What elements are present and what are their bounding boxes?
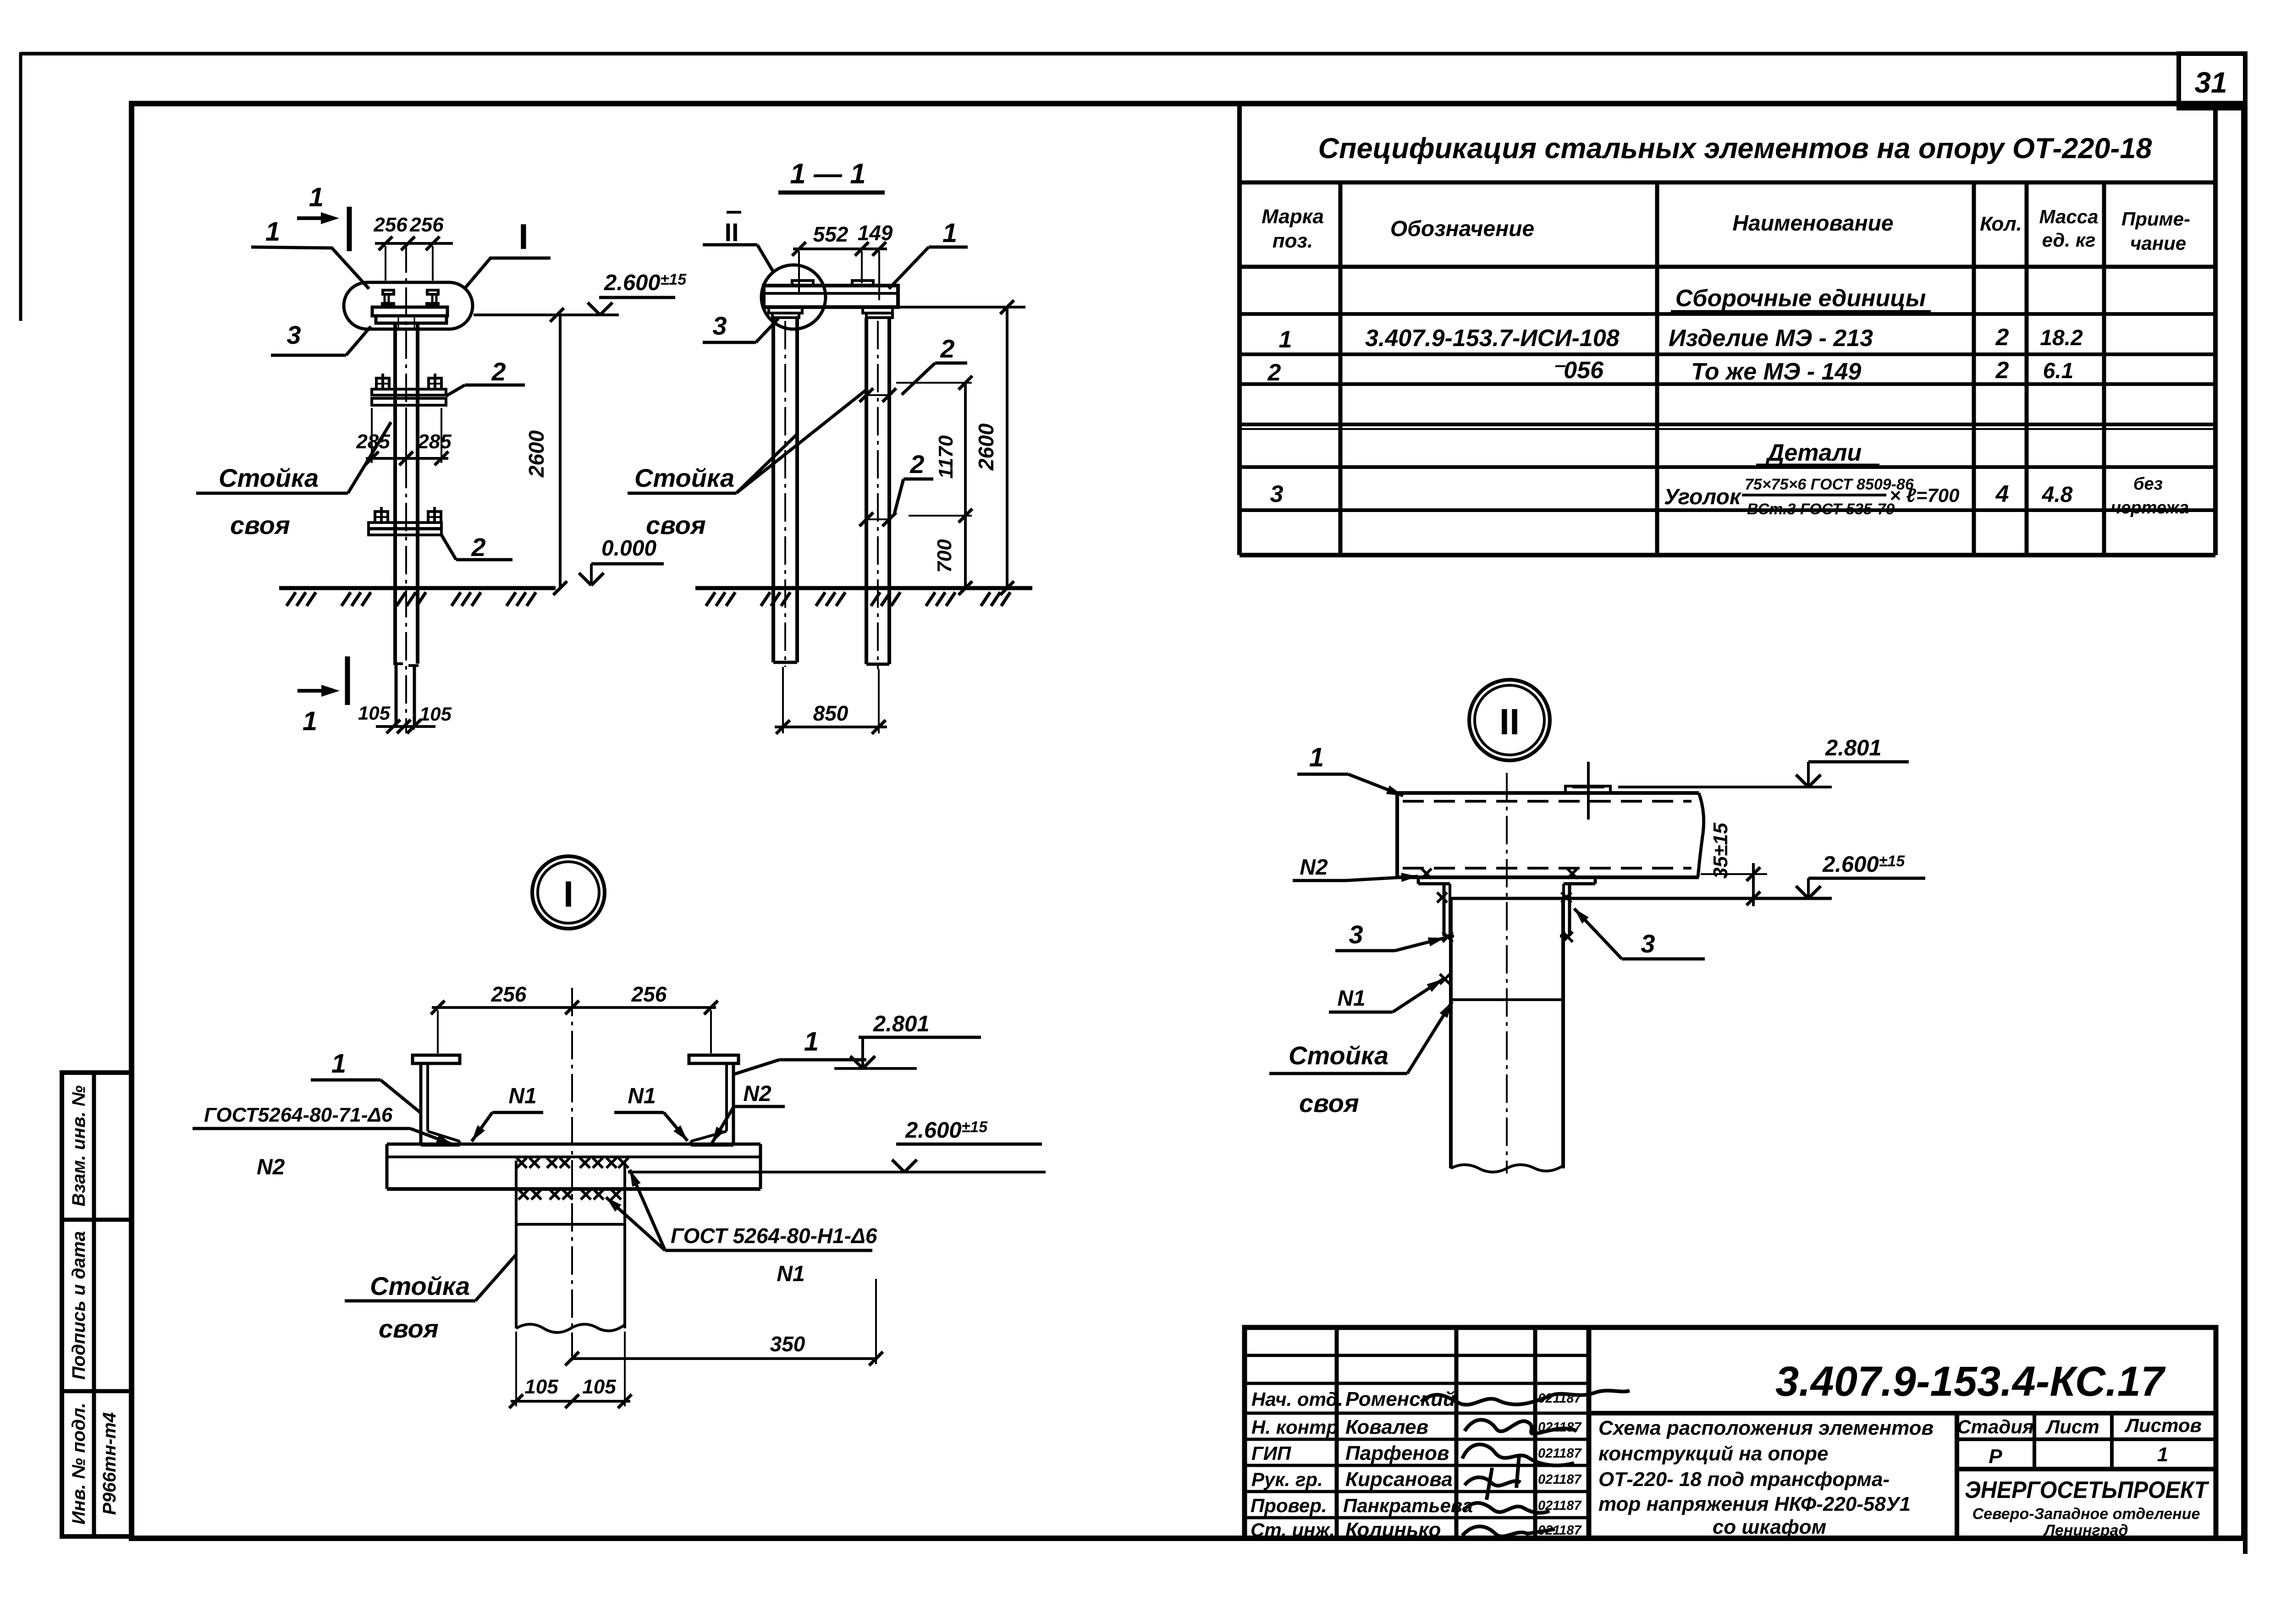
svg-text:1: 1: [1279, 326, 1292, 353]
svg-text:N2: N2: [1300, 855, 1328, 880]
svg-text:I: I: [563, 874, 573, 914]
svg-text:ГОСТ5264-80-71-Δ6: ГОСТ5264-80-71-Δ6: [204, 1104, 393, 1126]
svg-text:своя: своя: [1299, 1089, 1359, 1118]
svg-text:ЭНЕРГОСЕТЬПРОЕКТ: ЭНЕРГОСЕТЬПРОЕКТ: [1965, 1477, 2209, 1503]
svg-text:Панкратьева: Панкратьева: [1343, 1495, 1473, 1516]
svg-text:без: без: [2133, 474, 2163, 494]
svg-text:3.407.9-153.4-КС.17: 3.407.9-153.4-КС.17: [1775, 1358, 2166, 1405]
svg-text:Кол.: Кол.: [1980, 213, 2022, 235]
svg-text:3: 3: [1349, 920, 1363, 949]
svg-text:4.8: 4.8: [2042, 483, 2073, 507]
svg-text:105: 105: [419, 703, 452, 725]
svg-text:N2: N2: [743, 1082, 771, 1106]
svg-text:1: 1: [942, 218, 957, 248]
svg-text:ОТ-220- 18 под трансформа-: ОТ-220- 18 под трансформа-: [1598, 1468, 1890, 1491]
svg-text:1: 1: [2157, 1443, 2168, 1466]
svg-text:Парфенов: Парфенов: [1345, 1442, 1449, 1464]
svg-text:поз.: поз.: [1273, 230, 1313, 252]
svg-text:Масса: Масса: [2039, 206, 2099, 227]
svg-text:конструкций на опоре: конструкций на опоре: [1598, 1442, 1829, 1465]
svg-text:Уголок: Уголок: [1664, 485, 1742, 509]
svg-text:Стойка: Стойка: [1289, 1041, 1388, 1070]
svg-text:Наименование: Наименование: [1732, 211, 1893, 236]
svg-text:285: 285: [417, 430, 452, 453]
svg-text:Приме-: Приме-: [2121, 208, 2190, 230]
svg-text:2.801: 2.801: [1825, 736, 1882, 760]
svg-text:× ℓ=700: × ℓ=700: [1890, 484, 1959, 506]
svg-text:1170: 1170: [935, 435, 957, 479]
svg-text:1: 1: [1309, 743, 1324, 772]
svg-text:3: 3: [1641, 929, 1655, 958]
svg-text:ВСт.3 ГОСТ 535-79: ВСт.3 ГОСТ 535-79: [1747, 501, 1895, 518]
svg-text:своя: своя: [230, 511, 290, 539]
svg-text:Спецификация стальных элемен: Спецификация стальных элементов на опору…: [1318, 132, 2152, 165]
svg-text:2: 2: [491, 357, 506, 386]
svg-text:чертежа: чертежа: [2111, 498, 2189, 517]
svg-text:Стойка: Стойка: [219, 463, 319, 492]
svg-text:0.000: 0.000: [601, 536, 656, 561]
svg-text:Ковалев: Ковалев: [1345, 1416, 1428, 1438]
svg-text:N1: N1: [508, 1084, 536, 1108]
svg-text:Ст. инж.: Ст. инж.: [1251, 1519, 1335, 1541]
svg-text:Стадия: Стадия: [1957, 1416, 2033, 1437]
svg-text:1 — 1: 1 — 1: [790, 158, 865, 190]
svg-text:Стойка: Стойка: [370, 1272, 470, 1300]
svg-text:700: 700: [933, 539, 956, 573]
svg-text:чание: чание: [2130, 232, 2186, 254]
svg-text:105: 105: [582, 1376, 616, 1398]
svg-text:2: 2: [1995, 357, 2009, 384]
svg-text:Листов: Листов: [2124, 1415, 2202, 1436]
svg-text:1: 1: [331, 1049, 346, 1079]
svg-text:Колинько: Колинько: [1345, 1519, 1441, 1541]
svg-text:Обозначение: Обозначение: [1390, 217, 1534, 241]
svg-text:Нач. отд.: Нач. отд.: [1251, 1388, 1343, 1410]
svg-text:Лист: Лист: [2045, 1416, 2099, 1437]
svg-text:Н. контр: Н. контр: [1251, 1416, 1338, 1438]
svg-text:021187: 021187: [1538, 1472, 1582, 1487]
svg-text:Провер.: Провер.: [1251, 1495, 1327, 1516]
svg-text:149: 149: [858, 221, 893, 245]
svg-text:850: 850: [813, 701, 848, 725]
svg-text:Изделие МЭ - 213: Изделие МЭ - 213: [1669, 325, 1873, 352]
svg-text:2: 2: [471, 533, 485, 562]
svg-text:То же МЭ - 149: То же МЭ - 149: [1691, 358, 1861, 385]
svg-text:31: 31: [2194, 66, 2227, 99]
svg-text:256: 256: [631, 982, 667, 1006]
svg-text:ГОСТ 5264-80-Н1-Δ6: ГОСТ 5264-80-Н1-Δ6: [671, 1224, 877, 1248]
svg-text:Стойка: Стойка: [634, 463, 734, 492]
svg-text:3: 3: [712, 311, 727, 340]
svg-text:Роменский: Роменский: [1345, 1388, 1455, 1410]
svg-text:2: 2: [909, 450, 924, 479]
svg-text:105: 105: [358, 702, 391, 724]
svg-text:2: 2: [1995, 324, 2009, 351]
svg-text:Детали: Детали: [1765, 440, 1862, 466]
svg-text:350: 350: [770, 1332, 805, 1356]
svg-text:552: 552: [813, 222, 848, 246]
svg-text:105: 105: [524, 1376, 558, 1398]
svg-text:2.801: 2.801: [873, 1012, 930, 1036]
svg-text:256: 256: [491, 982, 527, 1006]
svg-text:1: 1: [265, 217, 280, 247]
svg-text:N1: N1: [1337, 986, 1365, 1011]
svg-text:Марка: Марка: [1262, 205, 1324, 228]
svg-text:N2: N2: [257, 1155, 285, 1179]
svg-text:1: 1: [309, 182, 324, 212]
svg-text:Кирсанова: Кирсанова: [1345, 1468, 1453, 1491]
svg-text:2: 2: [1267, 359, 1281, 386]
svg-text:со шкафом: со шкафом: [1713, 1516, 1826, 1538]
svg-text:I: I: [518, 216, 529, 257]
svg-text:18.2: 18.2: [2040, 326, 2083, 350]
svg-text:256: 256: [373, 214, 408, 236]
svg-text:Взам. инв. №: Взам. инв. №: [69, 1085, 89, 1206]
svg-text:Схема расположения элементов: Схема расположения элементов: [1598, 1417, 1934, 1439]
svg-text:256: 256: [409, 214, 444, 236]
svg-text:2600: 2600: [524, 430, 548, 478]
svg-text:⁻056: ⁻056: [1551, 357, 1604, 384]
svg-text:Инв. № подл.: Инв. № подл.: [69, 1403, 89, 1525]
svg-text:ед. кг: ед. кг: [2042, 229, 2096, 251]
svg-text:1: 1: [804, 1027, 819, 1057]
svg-text:2: 2: [940, 334, 954, 363]
svg-text:35±15: 35±15: [1709, 822, 1732, 879]
svg-text:Подпись и дата: Подпись и дата: [69, 1231, 89, 1380]
svg-text:тор напряжения НКФ-220-58У1: тор напряжения НКФ-220-58У1: [1598, 1493, 1911, 1515]
svg-text:Северо-Западное отделение: Северо-Западное отделение: [1972, 1505, 2200, 1523]
svg-text:своя: своя: [379, 1314, 439, 1343]
svg-text:3: 3: [1270, 481, 1284, 507]
svg-text:II: II: [724, 218, 738, 247]
svg-text:Сборочные единицы: Сборочные единицы: [1675, 285, 1926, 312]
svg-text:3: 3: [286, 320, 301, 349]
svg-text:021187: 021187: [1538, 1446, 1582, 1461]
svg-text:ГИП: ГИП: [1251, 1442, 1291, 1464]
svg-text:Р966тн-т4: Р966тн-т4: [99, 1412, 120, 1515]
svg-text:4: 4: [1995, 481, 2009, 507]
svg-text:75×75×6 ГОСТ 8509-86: 75×75×6 ГОСТ 8509-86: [1745, 476, 1914, 493]
svg-text:II: II: [1499, 701, 1520, 742]
svg-text:1: 1: [303, 706, 317, 736]
svg-text:своя: своя: [646, 511, 706, 539]
svg-text:2600: 2600: [974, 423, 998, 471]
svg-text:6.1: 6.1: [2043, 359, 2074, 383]
svg-text:N1: N1: [777, 1262, 804, 1286]
svg-text:3.407.9-153.7-ИСИ-108: 3.407.9-153.7-ИСИ-108: [1365, 325, 1620, 352]
svg-text:Рук. гр.: Рук. гр.: [1251, 1469, 1323, 1490]
svg-text:N1: N1: [628, 1084, 656, 1108]
svg-text:Ленинград: Ленинград: [2043, 1522, 2128, 1539]
svg-text:Р: Р: [1989, 1445, 2002, 1468]
